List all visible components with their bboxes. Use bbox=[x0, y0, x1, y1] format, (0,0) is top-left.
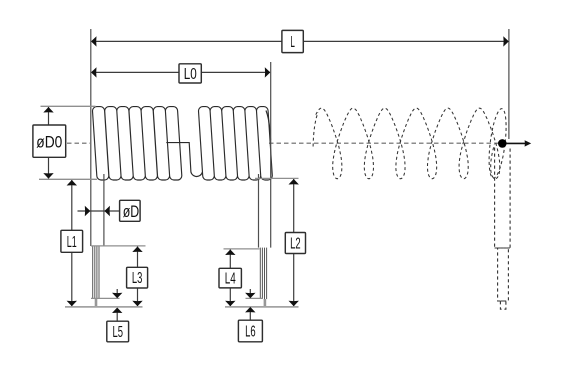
wire bundle left bbox=[92, 246, 94, 299]
dimension line L3 bbox=[137, 247, 139, 268]
oD leader line bbox=[78, 210, 120, 212]
inter-coil wire at axis height bbox=[166, 143, 202, 177]
dimension line L4 bbox=[229, 250, 231, 269]
wire end tick left bbox=[91, 297, 120, 299]
extended cable tail jacket, dashed bbox=[495, 148, 511, 310]
label box oD bbox=[120, 200, 141, 221]
dimension line L bbox=[92, 40, 508, 42]
wire bundle right bbox=[259, 248, 261, 299]
center axis dashed line (right segment) bbox=[269, 142, 498, 144]
label box L0 bbox=[179, 64, 201, 83]
extended coil start hook bbox=[313, 113, 318, 147]
label box L5 bbox=[107, 321, 129, 342]
label box L6 bbox=[238, 320, 262, 342]
left extension line / cable jacket left edge bbox=[90, 29, 92, 246]
dimension L5 lower arrow bbox=[116, 309, 118, 322]
label box L1 bbox=[61, 230, 83, 252]
coil group B lead-out to cable jacket bbox=[266, 111, 271, 141]
svg-text:øD0: øD0 bbox=[36, 132, 62, 151]
dimension line L2 bbox=[293, 179, 295, 232]
retracted coil group A (left, 7 turns) bbox=[93, 107, 182, 180]
wire end tick right bbox=[246, 297, 264, 299]
svg-text:øD: øD bbox=[123, 202, 140, 221]
end point dot bbox=[498, 139, 507, 148]
svg-text:L5: L5 bbox=[112, 324, 123, 341]
dimension line L0 bbox=[92, 71, 270, 73]
extended tail connector body, dashed bbox=[498, 248, 509, 301]
cable jacket left: right edge bbox=[103, 174, 105, 246]
svg-text:L6: L6 bbox=[245, 324, 256, 341]
svg-text:L1: L1 bbox=[67, 234, 77, 251]
dimension L6 lower arrow bbox=[249, 309, 251, 321]
conductor tip left bbox=[95, 299, 98, 307]
jacket end tick right bbox=[224, 248, 260, 250]
conductor tip right bbox=[264, 299, 267, 307]
dimension L6 upper arrow bbox=[249, 289, 251, 298]
dimension line L1 bbox=[71, 180, 73, 230]
jacket end tick left bbox=[91, 245, 146, 247]
svg-text:L0: L0 bbox=[184, 66, 197, 83]
label box L2 bbox=[285, 233, 305, 254]
right coil bottom tick (L2 top) bbox=[255, 177, 299, 179]
extended coil end turn bbox=[486, 108, 509, 179]
dimension L5 upper arrow bbox=[116, 289, 118, 298]
svg-text:L4: L4 bbox=[225, 271, 236, 288]
dimension line oD0 bbox=[48, 107, 50, 125]
baseline right bbox=[225, 306, 299, 308]
extended coil, dashed (6 stretched turns, helix projection) bbox=[316, 108, 500, 179]
label box L4 bbox=[219, 268, 241, 288]
oD0 bottom tick / L1 top tick bbox=[39, 178, 97, 180]
svg-text:L: L bbox=[290, 34, 295, 51]
pull direction arrow bbox=[506, 142, 526, 144]
oD0 top tick bbox=[41, 105, 96, 107]
label box L3 bbox=[127, 267, 148, 288]
right extension line (L0) / cable jacket right edge bbox=[270, 62, 272, 248]
label box L bbox=[282, 30, 303, 52]
center axis dashed line (left segment) bbox=[67, 142, 90, 144]
svg-text:L2: L2 bbox=[290, 236, 301, 253]
retracted coil group B (right, 6 turns) bbox=[199, 107, 273, 180]
cable jacket right: left edge bbox=[258, 174, 260, 248]
dimension L extension line right bbox=[508, 29, 510, 139]
baseline left (wire tip level) bbox=[65, 306, 143, 308]
svg-text:L3: L3 bbox=[132, 270, 143, 287]
extended tail connector tip, dashed bbox=[500, 301, 506, 309]
label box oD0 bbox=[33, 125, 66, 157]
